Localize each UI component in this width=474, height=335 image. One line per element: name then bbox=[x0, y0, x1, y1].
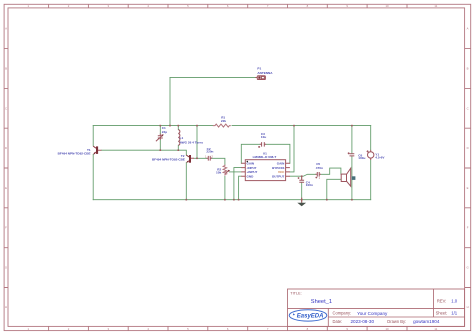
svg-text:10: 10 bbox=[385, 4, 389, 8]
svg-text:GND: GND bbox=[247, 174, 255, 178]
svg-text:10k: 10k bbox=[216, 171, 221, 175]
svg-text:1.0: 1.0 bbox=[451, 299, 458, 304]
svg-text:470n: 470n bbox=[316, 166, 323, 170]
svg-text:A: A bbox=[5, 26, 7, 30]
svg-text:11: 11 bbox=[434, 4, 437, 8]
svg-text:AWG 26 4 Turns: AWG 26 4 Turns bbox=[180, 140, 204, 144]
svg-text:100u: 100u bbox=[358, 156, 365, 160]
svg-text:F: F bbox=[467, 226, 469, 230]
svg-text:220n: 220n bbox=[206, 149, 213, 153]
svg-text:Sheet:: Sheet: bbox=[436, 310, 448, 315]
svg-text:H: H bbox=[5, 305, 7, 309]
svg-text:TITLE:: TITLE: bbox=[290, 291, 301, 295]
svg-text:1/1: 1/1 bbox=[451, 311, 458, 316]
svg-text:LM386L-D 008-T: LM386L-D 008-T bbox=[253, 155, 277, 159]
svg-text:F: F bbox=[5, 226, 7, 230]
svg-text:C: C bbox=[5, 106, 7, 110]
svg-text:BF494 NPN-TO92-CBE: BF494 NPN-TO92-CBE bbox=[58, 152, 91, 156]
svg-text:OUTPUT: OUTPUT bbox=[272, 174, 285, 178]
svg-text:B: B bbox=[467, 67, 469, 71]
svg-text:EasyEDA: EasyEDA bbox=[297, 314, 324, 320]
svg-text:D: D bbox=[5, 146, 7, 150]
svg-text:E: E bbox=[5, 186, 7, 190]
svg-text:G: G bbox=[467, 266, 469, 270]
svg-text:10u: 10u bbox=[261, 135, 266, 139]
svg-text:Sheet_1: Sheet_1 bbox=[311, 299, 332, 305]
svg-text:E: E bbox=[467, 186, 469, 190]
svg-text:Your Company: Your Company bbox=[357, 311, 388, 316]
svg-text:gowtam1904: gowtam1904 bbox=[413, 319, 440, 324]
svg-text:22p: 22p bbox=[162, 130, 167, 134]
svg-text:2023-08-30: 2023-08-30 bbox=[351, 319, 375, 324]
svg-text:100n: 100n bbox=[306, 183, 313, 187]
svg-text:10: 10 bbox=[385, 327, 389, 331]
svg-text:Drawn By:: Drawn By: bbox=[387, 319, 406, 324]
svg-text:B: B bbox=[5, 67, 7, 71]
svg-text:Date:: Date: bbox=[333, 319, 343, 324]
svg-text:ANTENNA: ANTENNA bbox=[257, 71, 273, 75]
svg-text:4.5-6V: 4.5-6V bbox=[375, 155, 385, 159]
svg-text:REV:: REV: bbox=[437, 299, 446, 304]
svg-text:H: H bbox=[467, 305, 469, 309]
svg-text:11: 11 bbox=[434, 327, 437, 331]
svg-text:22k: 22k bbox=[221, 119, 226, 123]
svg-text:G: G bbox=[5, 266, 7, 270]
svg-text:BF494 NPN-TO92-CBE: BF494 NPN-TO92-CBE bbox=[152, 157, 185, 161]
svg-text:P1: P1 bbox=[257, 66, 261, 70]
svg-text:C: C bbox=[467, 106, 469, 110]
svg-text:L1: L1 bbox=[180, 136, 184, 140]
svg-text:D: D bbox=[467, 146, 469, 150]
svg-text:Company:: Company: bbox=[333, 311, 352, 316]
svg-text:A: A bbox=[467, 26, 469, 30]
